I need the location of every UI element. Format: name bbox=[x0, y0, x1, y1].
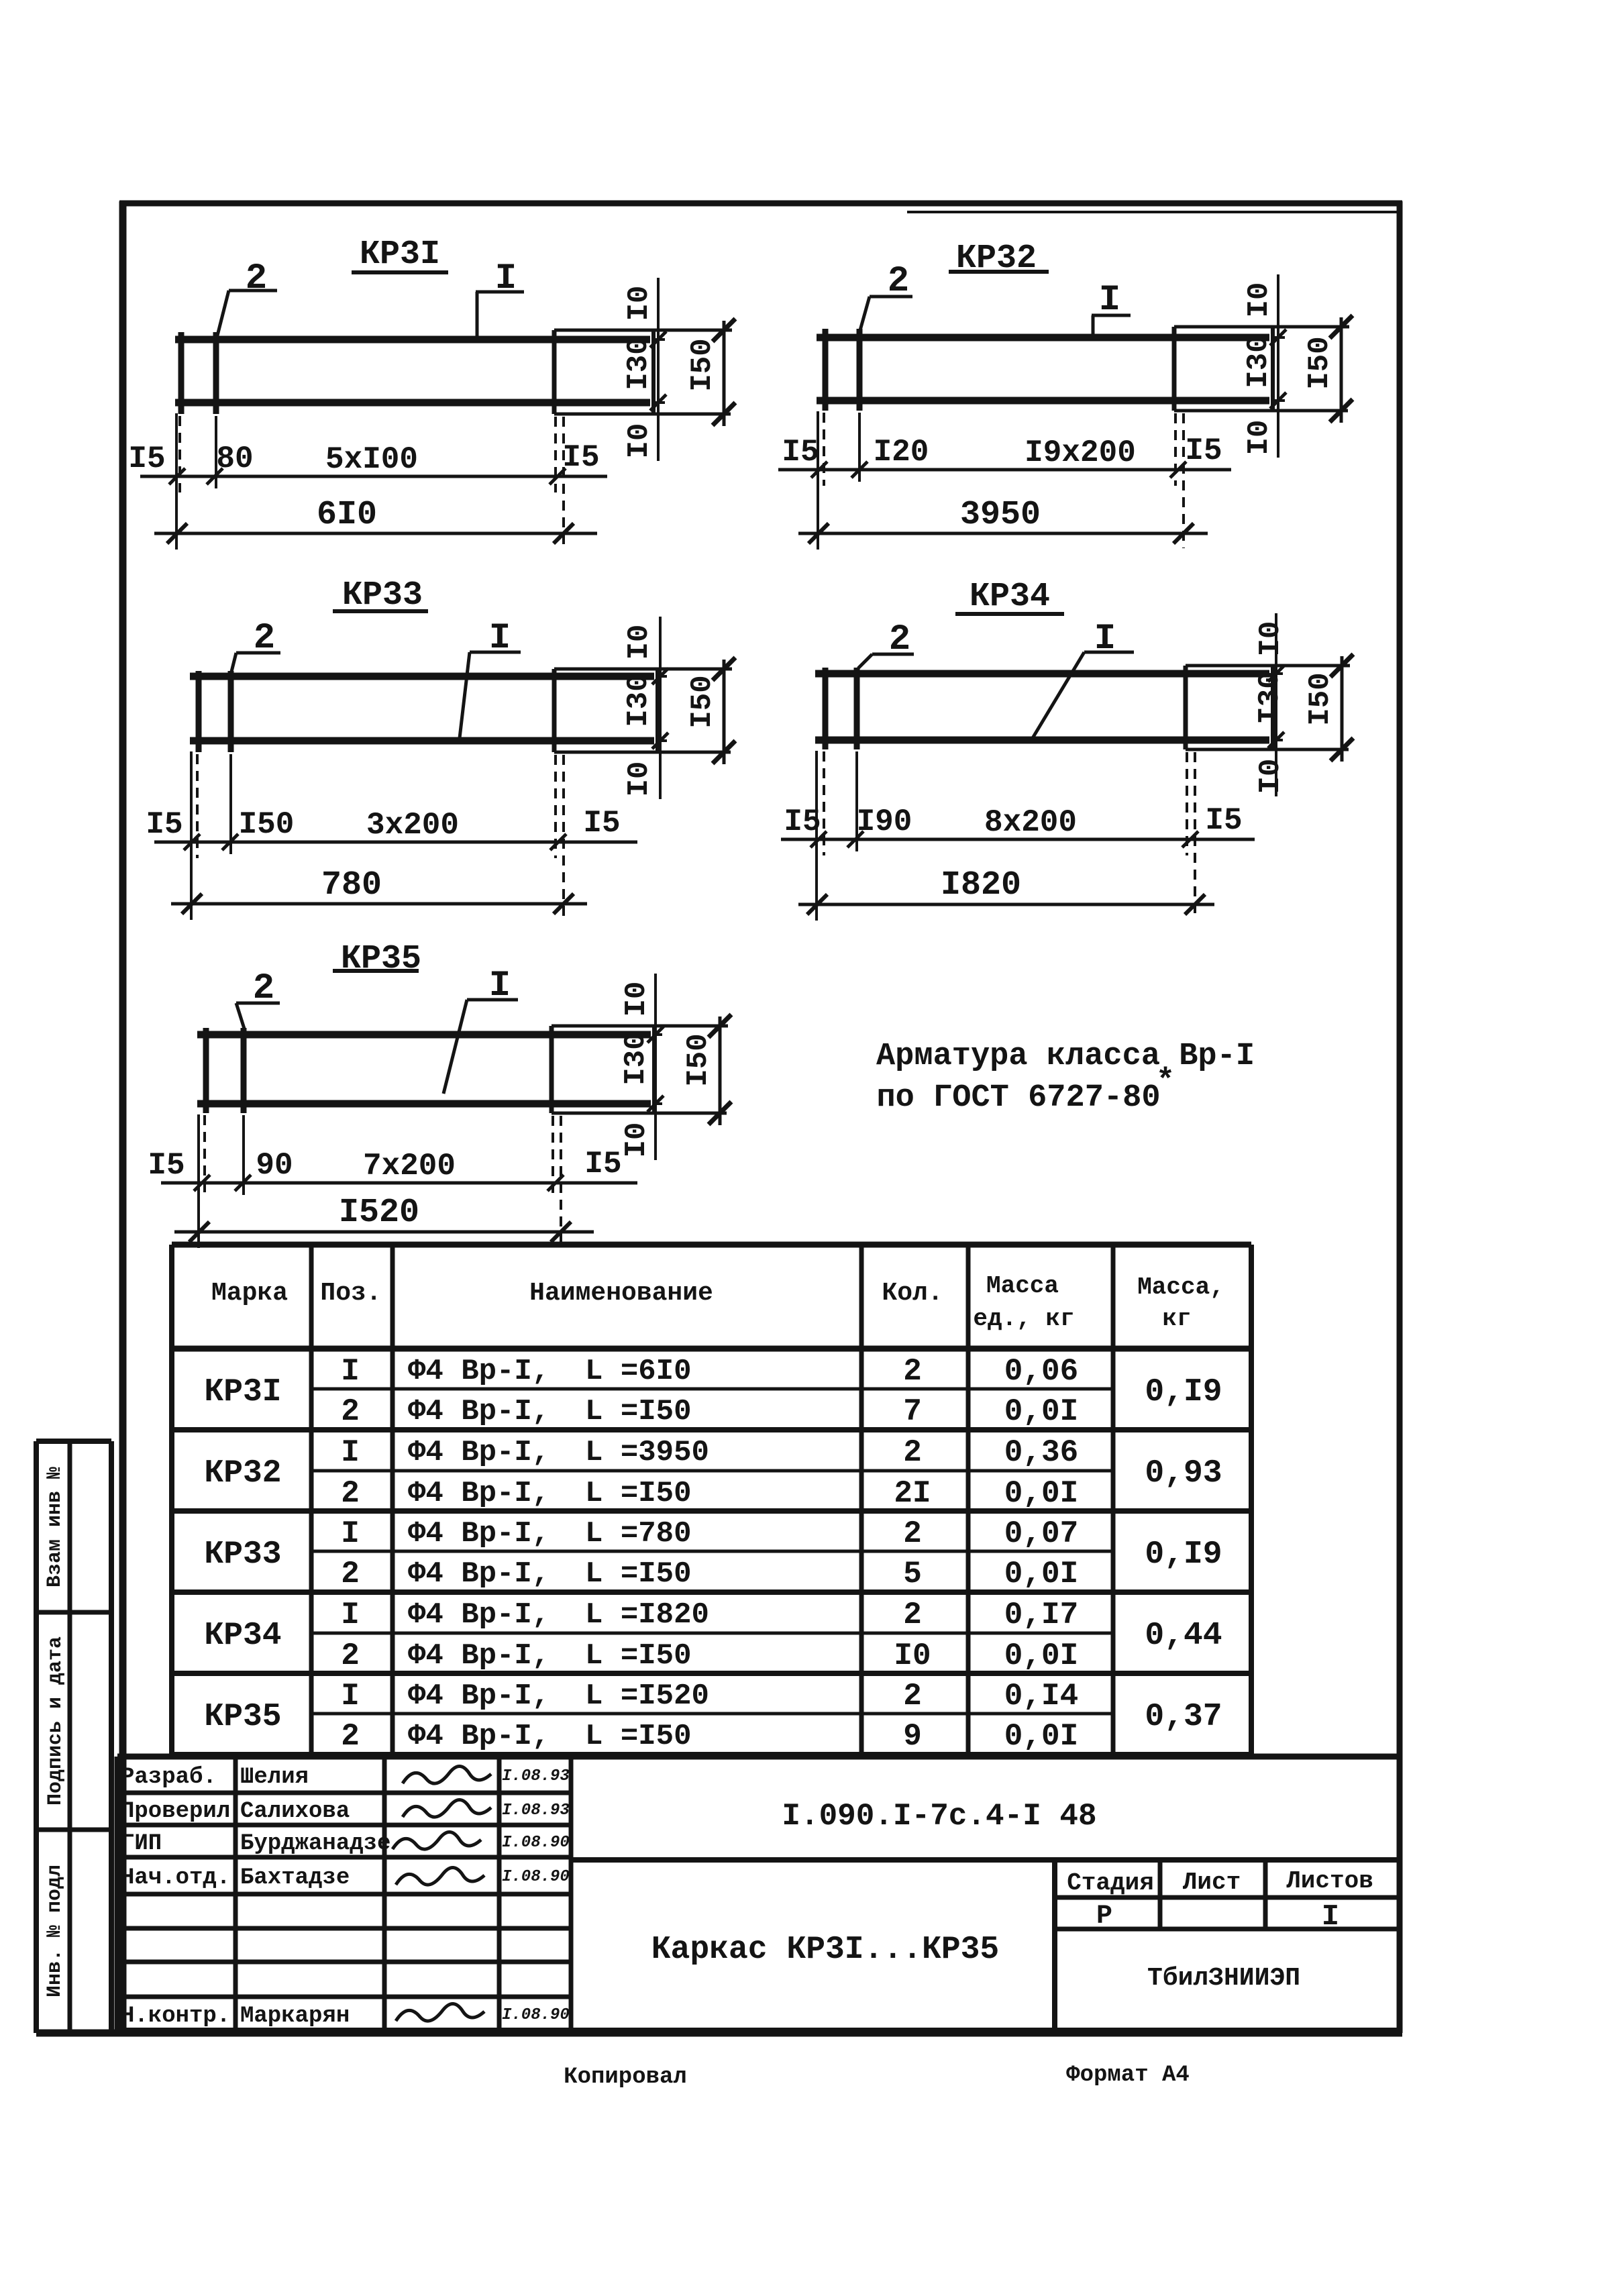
svg-text:2: 2 bbox=[341, 1476, 360, 1511]
cage KP32: ext line above (10 top) bbox=[1277, 274, 1279, 333]
svg-text:Арматура класса Вр-I: Арматура класса Вр-I bbox=[876, 1039, 1255, 1074]
svg-text:0,44: 0,44 bbox=[1145, 1618, 1222, 1654]
table КР32 bottom line bbox=[172, 1508, 1251, 1514]
svg-text:I820: I820 bbox=[941, 866, 1021, 904]
cage KP33: extension at left chord end bbox=[190, 751, 193, 920]
cage KP31: chord ext right top bbox=[653, 338, 665, 341]
title block signature 4 bbox=[396, 1867, 484, 1885]
title block stage row lines bbox=[1055, 1895, 1400, 1900]
title block column line bbox=[497, 1757, 502, 2031]
svg-text:Ф4 Вр-I, L =I50: Ф4 Вр-I, L =I50 bbox=[408, 1639, 691, 1673]
cage KP33: last transverse bar pos.2 bbox=[656, 669, 660, 752]
cage KP34: last transverse bar pos.2 bbox=[1271, 666, 1275, 749]
svg-text:*: * bbox=[1156, 1064, 1175, 1100]
table КР34 pos divider bbox=[311, 1632, 1113, 1635]
cage KP32: bottom longitudinal bar pos.1 bbox=[817, 397, 1269, 405]
svg-text:I.08.90: I.08.90 bbox=[502, 1834, 570, 1852]
svg-text:I: I bbox=[1322, 1900, 1339, 1934]
svg-text:I5: I5 bbox=[1185, 433, 1222, 468]
svg-text:Ф4 Вр-I, L =I520: Ф4 Вр-I, L =I520 bbox=[408, 1679, 709, 1713]
title block row line bbox=[117, 1926, 571, 1931]
table КР3I bottom line bbox=[172, 1427, 1251, 1432]
cage KP33: overall dimension line bbox=[171, 902, 587, 906]
svg-text:I5: I5 bbox=[782, 435, 819, 470]
cage KP34: bar-end line top (ext for 150) bbox=[1186, 664, 1350, 668]
cage KP32: chord ext right top bbox=[1273, 336, 1285, 339]
svg-text:2: 2 bbox=[903, 1435, 922, 1470]
svg-text:Масса,: Масса, bbox=[1137, 1273, 1224, 1301]
cage KP33: spacing dimension line bbox=[154, 841, 637, 844]
cage KP33: extension at right-end bar (dashed) bbox=[554, 755, 557, 858]
title block signature 3 bbox=[392, 1832, 481, 1849]
cage KP35: ext line above (10 top) bbox=[654, 974, 657, 1033]
drawing frame top border bbox=[119, 201, 1402, 207]
cage KP34: extension at right-end bar (dashed) bbox=[1186, 752, 1188, 855]
svg-text:I: I bbox=[341, 1679, 360, 1714]
svg-text:I5: I5 bbox=[128, 441, 165, 476]
table column line 2 bbox=[390, 1245, 395, 1755]
svg-text:2: 2 bbox=[341, 1719, 360, 1754]
svg-text:I50: I50 bbox=[686, 338, 719, 391]
svg-text:7x200: 7x200 bbox=[363, 1149, 456, 1184]
cage KP35: spacing dimension line bbox=[161, 1182, 637, 1185]
cage KP32: extension at left chord end bbox=[817, 411, 819, 550]
cage KP31: spacing dimension line bbox=[140, 475, 607, 478]
cage KP32: transverse bar pos.2 second bbox=[857, 329, 863, 411]
svg-text:Ф4 Вр-I, L =I50: Ф4 Вр-I, L =I50 bbox=[408, 1395, 691, 1428]
svg-text:Проверил: Проверил bbox=[121, 1799, 230, 1824]
svg-text:ед., кг: ед., кг bbox=[973, 1305, 1074, 1333]
svg-text:I: I bbox=[341, 1435, 360, 1470]
svg-text:0,0I: 0,0I bbox=[1004, 1394, 1078, 1429]
svg-text:Ф4 Вр-I, L =780: Ф4 Вр-I, L =780 bbox=[408, 1517, 691, 1551]
svg-text:Стадия: Стадия bbox=[1067, 1869, 1154, 1897]
svg-text:I50: I50 bbox=[1304, 672, 1337, 725]
title block signature 1 bbox=[403, 1766, 491, 1783]
svg-text:0,07: 0,07 bbox=[1004, 1516, 1078, 1551]
table column line 1 bbox=[309, 1245, 314, 1755]
cage KP34: chord ext right bottom bbox=[1273, 739, 1283, 741]
svg-text:I50: I50 bbox=[686, 675, 719, 728]
cage KP32: last transverse bar pos.2 bbox=[1271, 327, 1275, 411]
svg-text:I.08.93: I.08.93 bbox=[502, 1767, 570, 1785]
cage KP34: spacing dimension line bbox=[781, 838, 1255, 841]
svg-text:Ф4 Вр-I, L =I820: Ф4 Вр-I, L =I820 bbox=[408, 1598, 709, 1632]
svg-text:I5: I5 bbox=[583, 806, 620, 841]
table column line 6 bbox=[1249, 1245, 1254, 1755]
drawing frame left border bbox=[119, 201, 127, 2033]
svg-text:I.090.I-7с.4-I 48: I.090.I-7с.4-I 48 bbox=[782, 1799, 1096, 1834]
svg-text:Ф4 Вр-I, L =6I0: Ф4 Вр-I, L =6I0 bbox=[408, 1355, 691, 1388]
cage KP31: bar-end line bottom (ext for 150) bbox=[554, 413, 731, 416]
side strip divider vertical bbox=[68, 1441, 72, 2033]
cage KP35: extension at left chord end bbox=[197, 1114, 200, 1248]
svg-text:Каркас КР3I...КР35: Каркас КР3I...КР35 bbox=[651, 1932, 999, 1968]
cage KP35: chord ext right top bbox=[654, 1033, 662, 1036]
cage KP32: dim line 150 bbox=[1340, 317, 1343, 423]
svg-text:Салихова: Салихова bbox=[240, 1799, 350, 1824]
cage KP34: top longitudinal bar pos.1 bbox=[815, 670, 1269, 678]
svg-text:I30: I30 bbox=[622, 674, 656, 727]
cage KP31: last transverse bar pos.2 bbox=[651, 330, 656, 414]
svg-text:Ф4 Вр-I, L =I50: Ф4 Вр-I, L =I50 bbox=[408, 1557, 691, 1591]
svg-text:I30: I30 bbox=[1242, 335, 1275, 388]
cage KP35: transverse bar pos.2 first bbox=[203, 1028, 209, 1113]
cage KP33: chord ext right bottom bbox=[658, 739, 667, 742]
svg-text:2: 2 bbox=[903, 1598, 922, 1632]
cage KP35: ext line below (10 bottom) bbox=[654, 1106, 657, 1160]
title block outer bbox=[117, 1754, 1400, 1760]
svg-text:I0: I0 bbox=[1243, 420, 1276, 456]
cage KP31: overall dimension line bbox=[154, 532, 597, 535]
svg-text:0,93: 0,93 bbox=[1145, 1455, 1222, 1492]
cage KP31: top longitudinal bar pos.1 bbox=[175, 336, 650, 344]
svg-text:Маркарян: Маркарян bbox=[240, 2003, 350, 2029]
svg-text:0,37: 0,37 bbox=[1145, 1699, 1222, 1735]
svg-text:8x200: 8x200 bbox=[984, 805, 1077, 840]
cage KP35: extension at right-end bar (dashed) bbox=[552, 1116, 554, 1199]
svg-text:I30: I30 bbox=[619, 1032, 653, 1085]
title block column line bbox=[233, 1757, 238, 2031]
svg-text:Марка: Марка bbox=[211, 1279, 288, 1308]
cage KP33: chord ext right top bbox=[658, 675, 667, 678]
cage KP34: extension at second bar bbox=[855, 751, 858, 851]
cage KP32: top longitudinal bar pos.1 bbox=[817, 334, 1269, 342]
cage KP31: ext line above (10 top) bbox=[657, 278, 660, 337]
svg-text:6I0: 6I0 bbox=[317, 496, 377, 534]
cage KP31: ext line below (10 bottom) bbox=[657, 407, 660, 461]
svg-text:Нач.отд.: Нач.отд. bbox=[121, 1865, 230, 1891]
cage KP35: overall dimension line bbox=[174, 1231, 594, 1234]
svg-text:I30: I30 bbox=[1253, 671, 1287, 724]
svg-text:Ф4 Вр-I, L =3950: Ф4 Вр-I, L =3950 bbox=[408, 1436, 709, 1469]
cage KP31: extension to overall dim (dashed) bbox=[562, 417, 565, 548]
table column line 4 bbox=[966, 1245, 971, 1755]
cage KP33: bar-end line top (ext for 150) bbox=[554, 668, 732, 671]
cage KP35: transverse bar pos.2 second bbox=[241, 1028, 247, 1113]
svg-text:2: 2 bbox=[903, 1679, 922, 1714]
cage KP35: transverse bar pos.2 at right end bbox=[549, 1026, 554, 1113]
cage KP33: bar-end line bottom (ext for 150) bbox=[554, 751, 731, 754]
svg-text:КР33: КР33 bbox=[342, 576, 423, 615]
cage KP32: transverse bar pos.2 first bbox=[823, 329, 829, 411]
svg-text:0,0I: 0,0I bbox=[1004, 1557, 1078, 1591]
cage KP31: bottom longitudinal bar pos.1 bbox=[175, 399, 650, 407]
cage KP32: ext line below (10 bottom) bbox=[1277, 404, 1279, 458]
svg-text:0,I4: 0,I4 bbox=[1004, 1679, 1078, 1714]
cage KP32: extension at right-end bar (dashed) bbox=[1174, 413, 1177, 486]
svg-text:I0: I0 bbox=[620, 1123, 653, 1158]
cage KP33: dim line 150 bbox=[723, 660, 726, 764]
svg-text:I0: I0 bbox=[623, 423, 656, 459]
svg-text:Инв. № подл: Инв. № подл bbox=[44, 1865, 66, 1997]
cage KP31: dim line 130 bbox=[657, 333, 660, 409]
table КР33 pos divider bbox=[311, 1550, 1113, 1553]
cage KP32: chord ext right bottom bbox=[1273, 399, 1285, 402]
svg-text:I50: I50 bbox=[682, 1033, 715, 1086]
cage KP31: transverse bar pos.2 second bbox=[213, 332, 219, 414]
cage KP33: extension at first bar bbox=[196, 754, 199, 858]
svg-text:I5: I5 bbox=[146, 807, 182, 842]
svg-text:I20: I20 bbox=[874, 435, 929, 470]
svg-text:Листов: Листов bbox=[1286, 1867, 1373, 1895]
svg-text:Ф4 Вр-I, L =I50: Ф4 Вр-I, L =I50 bbox=[408, 1477, 691, 1510]
svg-text:I520: I520 bbox=[339, 1194, 419, 1232]
svg-text:I0: I0 bbox=[894, 1638, 931, 1673]
svg-text:90: 90 bbox=[256, 1148, 293, 1183]
drawing frame top border doubled segment bbox=[907, 211, 1400, 213]
cage KP33: dim line 130 bbox=[659, 670, 662, 747]
svg-text:2: 2 bbox=[341, 1394, 360, 1429]
svg-text:0,36: 0,36 bbox=[1004, 1435, 1078, 1470]
cage KP35: top longitudinal bar pos.1 bbox=[197, 1031, 651, 1039]
svg-text:КР3I: КР3I bbox=[204, 1374, 281, 1410]
svg-text:80: 80 bbox=[216, 441, 253, 476]
title block column line bbox=[569, 1757, 574, 2031]
cage KP34: overall dimension line bbox=[798, 903, 1214, 906]
cage KP34: bottom longitudinal bar pos.1 bbox=[815, 737, 1269, 744]
table column line 0 bbox=[169, 1245, 174, 1755]
cage KP35: extension to overall dim (dashed) bbox=[560, 1116, 562, 1247]
svg-text:КР32: КР32 bbox=[204, 1455, 281, 1492]
cage KP32: extension at second bar bbox=[858, 413, 861, 482]
cage KP33: bottom longitudinal bar pos.1 bbox=[190, 737, 654, 745]
svg-text:КР34: КР34 bbox=[970, 578, 1050, 616]
svg-text:I9x200: I9x200 bbox=[1025, 435, 1136, 470]
cage KP33: ext line above (10 top) bbox=[659, 617, 662, 676]
svg-text:780: 780 bbox=[321, 866, 382, 904]
svg-text:I90: I90 bbox=[857, 804, 912, 839]
cage KP31: extension at second bar bbox=[215, 416, 217, 488]
svg-text:3x200: 3x200 bbox=[366, 808, 459, 843]
svg-text:КР34: КР34 bbox=[204, 1618, 281, 1654]
svg-text:I50: I50 bbox=[239, 807, 295, 842]
cage KP32: bar-end line bottom (ext for 150) bbox=[1174, 409, 1348, 413]
cage KP35: last transverse bar pos.2 bbox=[652, 1026, 656, 1113]
table КР35 pos divider bbox=[311, 1712, 1113, 1716]
cage KP31: extension at left chord end bbox=[175, 413, 178, 550]
cage KP35: bar-end line top (ext for 150) bbox=[552, 1025, 728, 1028]
svg-text:I.08.93: I.08.93 bbox=[502, 1802, 570, 1820]
svg-text:9: 9 bbox=[903, 1719, 922, 1754]
side strip cell line 1 bbox=[36, 1610, 111, 1615]
svg-text:Лист: Лист bbox=[1183, 1869, 1241, 1896]
svg-text:I.08.90: I.08.90 bbox=[502, 1868, 570, 1886]
svg-text:Р: Р bbox=[1096, 1901, 1112, 1932]
svg-text:5xI00: 5xI00 bbox=[325, 442, 418, 477]
table КР33 bottom line bbox=[172, 1589, 1251, 1595]
svg-text:I5: I5 bbox=[148, 1148, 185, 1183]
table header bottom bbox=[172, 1346, 1251, 1352]
cage KP34: bar-end line bottom (ext for 150) bbox=[1186, 748, 1349, 751]
title block column line bbox=[382, 1757, 387, 2031]
svg-text:I5: I5 bbox=[562, 440, 599, 475]
svg-text:Взам инв №: Взам инв № bbox=[44, 1467, 66, 1587]
title block row line bbox=[117, 1960, 571, 1965]
svg-text:I0: I0 bbox=[620, 982, 653, 1017]
svg-text:Наименование: Наименование bbox=[529, 1279, 713, 1308]
drawing frame right border bbox=[1397, 201, 1403, 2033]
svg-text:I0: I0 bbox=[1254, 621, 1288, 657]
title block row line bbox=[117, 1791, 571, 1795]
cage KP35: chord ext right bottom bbox=[654, 1102, 662, 1105]
title block center divider bbox=[571, 1857, 1400, 1863]
svg-text:2I: 2I bbox=[894, 1476, 931, 1511]
cage KP34: ext line below (10 bottom) bbox=[1275, 743, 1277, 796]
table outer top bbox=[172, 1242, 1251, 1248]
svg-text:КР33: КР33 bbox=[204, 1536, 281, 1573]
svg-text:I0: I0 bbox=[623, 625, 656, 660]
cage KP33: extension to overall dim (dashed) bbox=[562, 755, 565, 919]
cage KP33: transverse bar pos.2 first bbox=[196, 671, 202, 752]
side strip outer bbox=[36, 1439, 111, 1444]
svg-text:Разраб.: Разраб. bbox=[121, 1765, 217, 1790]
title block right section divider bbox=[1052, 1860, 1057, 2031]
table column line 5 bbox=[1111, 1245, 1116, 1755]
cage KP33: transverse bar pos.2 at right end bbox=[552, 669, 557, 752]
svg-text:I5: I5 bbox=[584, 1147, 621, 1182]
svg-text:I30: I30 bbox=[622, 337, 656, 390]
svg-text:Ф4 Вр-I, L =I50: Ф4 Вр-I, L =I50 bbox=[408, 1720, 691, 1753]
table КР34 bottom line bbox=[172, 1671, 1251, 1676]
svg-text:I0: I0 bbox=[623, 286, 656, 321]
cage KP33: ext line below (10 bottom) bbox=[659, 745, 662, 799]
svg-text:I5: I5 bbox=[784, 804, 821, 839]
cage KP34: ext line above (10 top) bbox=[1275, 613, 1277, 672]
title block row line bbox=[117, 1855, 571, 1860]
cage KP35: bottom longitudinal bar pos.1 bbox=[197, 1100, 651, 1108]
svg-text:0,06: 0,06 bbox=[1004, 1354, 1078, 1389]
title block row line bbox=[117, 1823, 571, 1828]
title block stage column lines bbox=[1158, 1860, 1163, 1929]
svg-text:0,I7: 0,I7 bbox=[1004, 1598, 1078, 1632]
table КР32 pos divider bbox=[311, 1469, 1113, 1473]
svg-text:ТбилЗНИИЭП: ТбилЗНИИЭП bbox=[1147, 1964, 1300, 1993]
cage KP34: dim line 150 bbox=[1341, 656, 1344, 762]
svg-text:3950: 3950 bbox=[960, 496, 1041, 534]
svg-text:Кол.: Кол. bbox=[882, 1279, 943, 1308]
cage KP34: extension to overall dim (dashed) bbox=[1194, 752, 1196, 919]
svg-text:2: 2 bbox=[341, 1557, 360, 1591]
svg-text:I: I bbox=[341, 1516, 360, 1551]
cage KP31: extension at right-end bar (dashed) bbox=[554, 417, 557, 492]
svg-text:I0: I0 bbox=[1254, 759, 1288, 794]
title block row line bbox=[117, 1995, 571, 1999]
cage KP31: dim line 150 bbox=[723, 321, 726, 426]
svg-text:Бахтадзе: Бахтадзе bbox=[240, 1865, 350, 1891]
svg-text:I0: I0 bbox=[1243, 282, 1276, 318]
drawing frame bottom border bbox=[36, 2030, 1402, 2037]
svg-text:0,0I: 0,0I bbox=[1004, 1638, 1078, 1673]
svg-text:I0: I0 bbox=[623, 762, 656, 797]
cage KP32: extension to overall dim (dashed) bbox=[1182, 413, 1185, 548]
svg-text:ГИП: ГИП bbox=[121, 1831, 162, 1857]
cage KP33: extension at second bar bbox=[229, 754, 232, 854]
cage KP35: dim line 150 bbox=[719, 1016, 722, 1125]
side strip cell line 2 bbox=[36, 1828, 111, 1832]
svg-text:I5: I5 bbox=[1205, 803, 1242, 838]
svg-text:0,I9: 0,I9 bbox=[1145, 1536, 1222, 1573]
svg-text:0,0I: 0,0I bbox=[1004, 1719, 1078, 1754]
svg-text:КР3I: КР3I bbox=[360, 236, 440, 274]
svg-text:кг: кг bbox=[1162, 1305, 1191, 1333]
cage KP34: transverse bar pos.2 at right end bbox=[1184, 666, 1188, 749]
cage KP32: bar-end line top (ext for 150) bbox=[1174, 325, 1349, 329]
svg-text:Шелия: Шелия bbox=[240, 1765, 309, 1790]
svg-text:I50: I50 bbox=[1303, 336, 1337, 389]
svg-text:0,0I: 0,0I bbox=[1004, 1476, 1078, 1511]
svg-text:2: 2 bbox=[903, 1354, 922, 1389]
cage KP35: dim line 130 bbox=[654, 1028, 657, 1110]
cage KP34: extension at left chord end bbox=[815, 751, 818, 921]
svg-text:по ГОСТ 6727-80: по ГОСТ 6727-80 bbox=[876, 1080, 1160, 1116]
cage KP35: bar-end line bottom (ext for 150) bbox=[552, 1112, 727, 1115]
svg-text:Копировал: Копировал bbox=[564, 2065, 687, 2090]
cage KP34: dim line 130 bbox=[1275, 667, 1277, 747]
cage KP32: transverse bar pos.2 at right end bbox=[1172, 327, 1177, 411]
svg-text:I: I bbox=[341, 1598, 360, 1632]
cage KP34: extension at first bar bbox=[823, 751, 825, 855]
cage KP32: dim line 130 bbox=[1277, 331, 1279, 407]
svg-text:Формат А4: Формат А4 bbox=[1066, 2063, 1190, 2088]
cage KP33: transverse bar pos.2 second bbox=[228, 671, 234, 752]
svg-text:0,I9: 0,I9 bbox=[1145, 1374, 1222, 1410]
cage KP34: transverse bar pos.2 second bbox=[854, 668, 860, 749]
svg-text:Бурджанадзе: Бурджанадзе bbox=[240, 1831, 390, 1857]
cage KP34: chord ext right top bbox=[1273, 672, 1283, 675]
cage KP31: chord ext right bottom bbox=[653, 401, 665, 404]
svg-text:Масса: Масса bbox=[986, 1272, 1059, 1300]
cage KP31: transverse bar pos.2 first bbox=[178, 332, 185, 414]
svg-text:КР35: КР35 bbox=[204, 1699, 281, 1735]
svg-text:2: 2 bbox=[903, 1516, 922, 1551]
cage KP31: bar-end line top (ext for 150) bbox=[554, 329, 732, 332]
cage KP32: spacing dimension line bbox=[778, 468, 1231, 472]
svg-text:Н.контр.: Н.контр. bbox=[121, 2003, 230, 2029]
cage KP32: extension at first bar bbox=[823, 413, 825, 486]
svg-text:2: 2 bbox=[341, 1638, 360, 1673]
cage KP32: overall dimension line bbox=[798, 532, 1208, 535]
cage KP31: extension at first bar bbox=[178, 416, 181, 492]
table КР3I pos divider bbox=[311, 1388, 1113, 1391]
title block row line bbox=[117, 1892, 571, 1897]
svg-text:5: 5 bbox=[903, 1557, 922, 1591]
svg-text:I.08.90: I.08.90 bbox=[502, 2006, 570, 2024]
cage KP35: extension at second bar bbox=[242, 1115, 245, 1195]
svg-text:I: I bbox=[341, 1354, 360, 1389]
svg-text:Поз.: Поз. bbox=[320, 1279, 381, 1308]
svg-text:7: 7 bbox=[903, 1394, 922, 1429]
table КР35 bottom line bbox=[172, 1752, 1251, 1757]
title block signature 5 bbox=[396, 2003, 484, 2021]
table column line 3 bbox=[859, 1245, 864, 1755]
svg-text:2: 2 bbox=[246, 258, 267, 299]
cage KP33: top longitudinal bar pos.1 bbox=[190, 673, 654, 680]
svg-text:Подпись и дата: Подпись и дата bbox=[44, 1636, 67, 1806]
cage KP31: transverse bar pos.2 at right end bbox=[552, 330, 557, 414]
title block signature 2 bbox=[403, 1799, 491, 1817]
cage KP34: transverse bar pos.2 first bbox=[823, 668, 829, 749]
cage KP35: extension at first bar bbox=[203, 1115, 206, 1199]
